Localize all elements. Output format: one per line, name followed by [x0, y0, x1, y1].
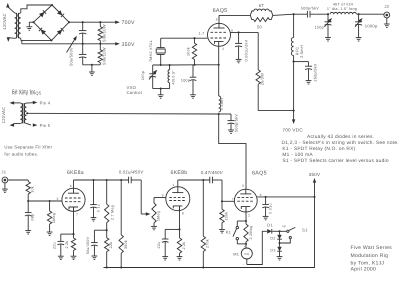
T1 primary arrow down	[7, 37, 10, 42]
svg-text:50: 50	[257, 24, 263, 29]
arrow 350V	[115, 42, 120, 45]
diode D3	[279, 243, 281, 247]
svg-text:2.2k: 2.2k	[65, 240, 69, 248]
svg-text:April 2000: April 2000	[351, 267, 377, 273]
svg-text:120VAC: 120VAC	[2, 13, 7, 30]
T2 arrow left bottom	[10, 123, 15, 126]
svg-text:D1: D1	[267, 223, 273, 228]
svg-text:700V: 700V	[122, 20, 135, 26]
svg-text:22k: 22k	[109, 242, 113, 249]
resistor 2.2k (stage2)	[179, 229, 181, 238]
svg-text:7: 7	[76, 213, 78, 217]
wire grid bus stage1	[28, 200, 62, 202]
svg-text:M1 - 100 mA: M1 - 100 mA	[282, 152, 313, 158]
svg-text:22u: 22u	[53, 242, 57, 249]
diode D1	[267, 229, 272, 234]
capacitor 22u (stage2)	[164, 229, 166, 239]
wire V2 plate	[73, 180, 75, 188]
svg-text:2: 2	[57, 197, 59, 201]
node T2 center tap	[26, 112, 28, 114]
svg-text:100k: 100k	[187, 47, 191, 56]
svg-text:2: 2	[248, 213, 250, 217]
svg-text:350V: 350V	[309, 172, 321, 177]
wire pin5 lead	[27, 123, 32, 125]
resistor 22k	[106, 230, 108, 238]
capacitor 500p/5kV (cathode bypass)	[219, 113, 231, 115]
resistor 100k (mod grid)	[221, 201, 223, 209]
capacitor 50u/500V (upper filter)	[82, 22, 84, 30]
parasitic suppressor 6T / 50	[250, 11, 254, 15]
wire to modulator grid	[222, 180, 234, 201]
node RF cathode junction	[218, 113, 220, 115]
svg-text:390k: 390k	[124, 240, 128, 249]
svg-text:0.001u/2kV: 0.001u/2kV	[244, 39, 248, 61]
node cap2 top	[82, 43, 84, 45]
node 100k top	[193, 37, 195, 39]
svg-text:J2: J2	[384, 4, 389, 9]
svg-text:10k: 10k	[31, 186, 35, 193]
wire center tap to RF cathode	[27, 112, 219, 115]
svg-text:7: 7	[232, 197, 234, 201]
wire grid bus (xtal top)	[161, 37, 208, 39]
tube V3 6KE8b	[166, 187, 190, 211]
svg-text:100p: 100p	[181, 78, 190, 82]
svg-text:150p: 150p	[314, 25, 324, 29]
wire to stage2 pot wiper	[140, 180, 142, 214]
svg-text:500p/5kV: 500p/5kV	[234, 114, 238, 132]
svg-text:Use Separate Fil Xfmr: Use Separate Fil Xfmr	[4, 145, 52, 150]
svg-text:up: up	[282, 224, 286, 228]
bridge diode top-right	[57, 10, 62, 15]
svg-text:270k: 270k	[206, 239, 210, 248]
svg-text:Pin 4: Pin 4	[40, 100, 51, 105]
T1 primary arrow up	[6, 3, 9, 8]
VXO tank bottom wire / ground	[153, 88, 170, 90]
wiper arrow	[146, 212, 151, 215]
wire pin4 lead	[27, 102, 34, 104]
inductor 40t coil (VXO)	[169, 65, 171, 70]
bridge diode bottom-right	[57, 30, 62, 35]
svg-text:S1 - SPDT Selects carrier lev: S1 - SPDT Selects carrier level versus a…	[282, 158, 388, 164]
wire grid stage2	[154, 197, 166, 199]
svg-text:K1 - SPDT Relay (N.O. on RX): K1 - SPDT Relay (N.O. on RX)	[282, 146, 355, 152]
svg-text:0.47/450V: 0.47/450V	[201, 170, 224, 175]
resistor 2k/2W (screen dropper)	[257, 32, 259, 69]
svg-text:1: 1	[173, 183, 175, 187]
tube V2 6KE8a	[62, 188, 85, 211]
wire cathode bus	[152, 64, 154, 66]
svg-text:0.1u: 0.1u	[97, 204, 101, 212]
arrow 700V	[115, 21, 120, 24]
T1 core	[16, 13, 18, 38]
bridge rectifier	[34, 5, 53, 22]
wire V3 plate	[177, 180, 179, 187]
S1 lever	[289, 227, 296, 230]
wire screen node	[231, 31, 259, 33]
wire mod screen to 350V	[257, 196, 314, 198]
transformer T2 (filament) primary	[20, 103, 22, 123]
svg-text:0.5mH: 0.5mH	[220, 98, 224, 110]
svg-text:1Meg: 1Meg	[156, 211, 160, 221]
variable capacitor 150p (tune)	[327, 14, 329, 22]
svg-text:Control: Control	[127, 90, 142, 95]
T2 core	[22, 103, 24, 123]
svg-text:Modulation Rig: Modulation Rig	[351, 253, 389, 259]
resistor 2.2Meg	[245, 221, 247, 224]
svg-text:Five Watt Series: Five Watt Series	[351, 245, 393, 251]
wire 350V rail down/left (B+ rail)	[104, 197, 315, 268]
capacitor 50u/450V	[106, 229, 108, 231]
capacitor 500p/5kV coupling	[306, 11, 308, 18]
variable capacitor 1000p (load)	[358, 14, 360, 22]
svg-text:7MHZ XTAL: 7MHZ XTAL	[149, 40, 153, 62]
svg-text:45T of #24: 45T of #24	[333, 2, 353, 6]
resistor 50k/10W (lower bleeder)	[99, 44, 101, 50]
svg-text:5: 5	[216, 17, 218, 21]
inductor RFC 2.5mH	[293, 14, 295, 37]
svg-text:100p: 100p	[141, 71, 145, 80]
svg-text:RF Amp 6AQ5: RF Amp 6AQ5	[12, 91, 42, 96]
svg-text:Pin 5: Pin 5	[40, 123, 51, 128]
wire T1 sec top to bridge	[21, 5, 52, 13]
supply 350V arrow	[313, 196, 315, 198]
arrow 700 VDC	[292, 119, 295, 124]
node RFC top	[293, 13, 295, 15]
svg-text:120VAC: 120VAC	[1, 107, 6, 124]
node res2 top	[99, 43, 101, 45]
svg-text:2.5mH: 2.5mH	[299, 45, 304, 58]
svg-text:500p/5kV: 500p/5kV	[301, 6, 319, 10]
tube V4 6AQ5 modulator	[234, 189, 257, 212]
svg-text:0.01u: 0.01u	[268, 203, 272, 214]
svg-text:mA: mA	[244, 252, 250, 256]
wire meter to diode string	[247, 231, 267, 264]
svg-text:for audio tubes.: for audio tubes.	[4, 151, 38, 156]
svg-text:2.7 Meg: 2.7 Meg	[111, 205, 115, 220]
wire cathode down to mod	[218, 46, 220, 65]
svg-text:6KE8a: 6KE8a	[67, 170, 84, 176]
svg-text:6AQ5: 6AQ5	[252, 171, 267, 177]
svg-text:D1,2,3 - Select#’s in string w: D1,2,3 - Select#’s in string with switch…	[282, 140, 399, 146]
svg-text:40t,0.5”: 40t,0.5”	[171, 70, 175, 85]
capacitor 22u (stage1)	[60, 234, 62, 241]
transformer T1 (plate supply)	[15, 13, 18, 38]
node 700VDC feed	[293, 110, 295, 112]
relay K1	[237, 220, 246, 222]
svg-text:1Meg: 1Meg	[52, 213, 56, 223]
psu ground	[83, 64, 101, 66]
svg-text:68p: 68p	[31, 214, 35, 221]
ground at bridge left vertex	[29, 21, 33, 23]
wire 700V bus	[69, 21, 115, 23]
svg-text:50k/10W: 50k/10W	[102, 24, 107, 42]
svg-text:350V: 350V	[122, 42, 135, 48]
svg-text:100k: 100k	[224, 211, 228, 220]
wire T1 sec bottom to bridge	[20, 38, 22, 40]
svg-text:2k/2W: 2k/2W	[260, 73, 265, 85]
svg-text:6T: 6T	[259, 3, 265, 8]
potentiometer 1Meg (stage2)	[153, 198, 155, 204]
svg-text:50u/500V: 50u/500V	[69, 47, 74, 66]
wire plate lead up	[218, 15, 220, 23]
T1 secondary	[18, 13, 21, 38]
svg-text:22u: 22u	[157, 242, 161, 249]
svg-text:D3: D3	[270, 249, 275, 253]
svg-text:Actually 43 diodes in series.: Actually 43 diodes in series.	[307, 134, 374, 140]
resistor 50k/10W (upper bleeder)	[99, 22, 101, 26]
T2 arrow left top	[10, 101, 15, 104]
capacitor 0.1u (plate bypass)	[93, 180, 95, 205]
resistor 270k	[202, 180, 204, 236]
svg-text:1” dia, 1.5” long: 1” dia, 1.5” long	[327, 7, 357, 11]
svg-text:1000p: 1000p	[365, 23, 378, 28]
svg-text:1,7: 1,7	[199, 32, 205, 36]
svg-text:J1: J1	[1, 169, 6, 174]
capacitor 0.001u/2kV (screen bypass)	[238, 32, 240, 43]
svg-text:D2: D2	[270, 237, 275, 241]
wire 350V bus	[21, 40, 23, 43]
svg-text:6: 6	[231, 28, 233, 32]
svg-text:M1: M1	[233, 251, 239, 256]
wire V3 cathode	[179, 207, 181, 230]
capacitor 100p (cathode bypass)	[192, 64, 194, 66]
wire J1 to grid	[8, 179, 28, 181]
svg-text:K1: K1	[226, 230, 231, 235]
svg-text:S1: S1	[302, 228, 308, 233]
capacitor 0.01u (screen bypass)	[265, 197, 267, 205]
connector J2	[384, 12, 390, 18]
svg-text:2.2Meg: 2.2Meg	[249, 226, 253, 240]
VXO tank top wire	[153, 64, 170, 66]
resistor 1 Meg (grid)	[49, 201, 51, 211]
svg-text:6: 6	[260, 193, 262, 197]
capacitor 50u/500V (lower filter)	[82, 44, 84, 55]
svg-text:6: 6	[70, 184, 72, 188]
resistor 100k (osc grid leak)	[194, 38, 196, 43]
svg-text:5: 5	[242, 184, 244, 188]
wire mod cathode	[245, 207, 247, 221]
wire plate line to output	[273, 14, 294, 15]
capacitor 68p	[27, 201, 29, 213]
K1 lever	[233, 229, 237, 237]
resistor 2.2k (stage1)	[73, 234, 75, 238]
tube V1 6AQ5 RF amp	[208, 23, 231, 46]
svg-text:50u/450V: 50u/450V	[86, 236, 90, 254]
resistor 10k (input)	[27, 180, 29, 182]
diode D2	[279, 231, 281, 234]
svg-text:8: 8	[182, 212, 184, 216]
svg-text:50k/10W: 50k/10W	[102, 47, 107, 65]
variable capacitor 100p (VXO)	[152, 65, 154, 74]
capacitor 250p/5kV	[293, 61, 295, 63]
wire V2 cathode network	[73, 208, 75, 235]
svg-text:700 VDC: 700 VDC	[282, 127, 303, 132]
T2 secondary	[24, 103, 26, 123]
crystal 7MHZ XTAL	[160, 38, 162, 47]
wire cathode to modulator plate	[219, 114, 246, 189]
svg-text:250p/5kV: 250p/5kV	[314, 63, 318, 81]
node res1 top	[99, 21, 101, 23]
bridge diode bottom-left	[41, 29, 46, 34]
svg-text:0.01u/450V: 0.01u/450V	[119, 169, 145, 174]
svg-text:2.2k: 2.2k	[182, 241, 186, 249]
node cap1 top	[82, 21, 84, 23]
resistor 2.7 Meg	[106, 180, 108, 204]
svg-text:2: 2	[222, 47, 224, 51]
svg-text:9: 9	[162, 193, 164, 197]
resistor 390k	[120, 180, 122, 235]
connector J1	[2, 177, 8, 183]
svg-text:6AQ5: 6AQ5	[213, 8, 228, 14]
switch S1	[280, 230, 287, 232]
meter M1	[245, 244, 247, 248]
svg-text:by Tom, K1JJ: by Tom, K1JJ	[351, 260, 385, 266]
bridge diode top-left	[39, 12, 44, 17]
inductor 0.5mH cathode choke	[219, 96, 221, 112]
inductor 45T tank coil	[327, 13, 329, 15]
svg-text:6KE8b: 6KE8b	[171, 170, 188, 176]
